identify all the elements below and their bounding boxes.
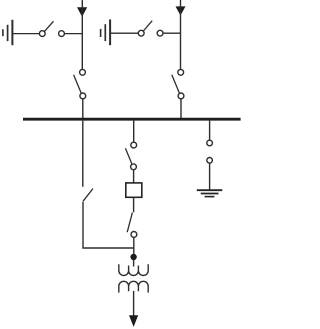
earthing switch Q6 contact lower bbox=[207, 158, 213, 164]
switch Q4 blade (open) bbox=[127, 213, 132, 233]
wire DS1 to feeder L1 bbox=[64, 33, 82, 35]
wire feeder L2 upper bbox=[180, 0, 182, 69]
switch Q4 contact bbox=[131, 232, 137, 238]
wire T1 secondary to outgoing arrow bbox=[133, 291, 135, 316]
wire QS1 to busbar bbox=[82, 99, 84, 119]
fuse F1 (device box) bbox=[126, 183, 142, 197]
ground (earth symbol below Q6) bbox=[197, 190, 223, 196]
disconnector DS1 (earthing switch bay 1, open) bbox=[39, 21, 64, 36]
node N1 junction dot bbox=[130, 254, 136, 260]
busbar bbox=[23, 118, 241, 121]
disconnector QS1 (bay 1 feeder, open) bbox=[74, 69, 86, 98]
wire Q6 to ground bbox=[209, 163, 211, 190]
earthing switch Q6 contact upper bbox=[207, 140, 213, 146]
incoming feeder L2 arrow bbox=[176, 6, 186, 15]
earth electrode E2 (bay 2, rotated earth symbol) bbox=[101, 19, 111, 45]
disconnector DS2 (earthing switch bay 2, open) bbox=[138, 21, 163, 36]
wire Q5 to node N1 (L-shaped link) bbox=[83, 202, 134, 248]
switch Q5 blade (open knife switch) bbox=[83, 189, 93, 202]
wire F1 to switch Q4 bbox=[133, 197, 135, 212]
wire busbar to QS3 bbox=[133, 121, 135, 143]
wire busbar to switch Q5 (bay 1 lower link) bbox=[82, 121, 84, 187]
transformer T1 primary winding bbox=[119, 264, 148, 275]
wire E1 to DS1 bbox=[13, 33, 39, 35]
disconnector QS2 (bay 2 feeder, open) bbox=[172, 69, 184, 98]
disconnector QS3 (transformer feeder, open) bbox=[125, 142, 136, 170]
transformer T1 secondary winding bbox=[119, 281, 148, 292]
wire Q4 to node N1 bbox=[133, 237, 135, 254]
wire busbar to earthing switch Q6 bbox=[209, 121, 211, 141]
earth electrode E1 (bay 1, rotated earth symbol) bbox=[3, 20, 13, 45]
wire DS2 to feeder L2 bbox=[163, 32, 181, 34]
outgoing feeder arrow bbox=[129, 315, 138, 327]
incoming feeder L1 arrow bbox=[77, 7, 87, 17]
wire N1 to transformer T1 bbox=[133, 260, 135, 267]
wire QS2 to busbar bbox=[180, 99, 182, 119]
wire feeder L1 upper bbox=[81, 0, 83, 69]
wire E2 to DS2 bbox=[111, 32, 139, 34]
wire QS3 to fuse F1 bbox=[133, 170, 135, 183]
